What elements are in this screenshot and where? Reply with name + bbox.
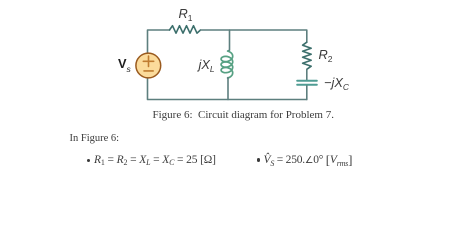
inductor jXL coil	[221, 51, 233, 78]
bullet 1 dot	[87, 159, 90, 162]
wire middle branch top	[228, 30, 229, 51]
bullet 2 dot	[257, 158, 260, 161]
voltage source Vs circle	[136, 53, 161, 78]
wire capacitor to bottom	[306, 86, 308, 100]
wire top-right segment	[201, 30, 307, 42]
capacitor -jXC	[297, 81, 317, 85]
bullet 1 text R1=R2=XL=XC	[94, 155, 216, 167]
label -jXC	[324, 77, 349, 90]
label Vs	[118, 58, 131, 71]
paragraph In Figure 6	[70, 134, 120, 145]
resistor R1	[170, 26, 201, 34]
voltage source minus sign	[144, 70, 153, 72]
wire R2 to capacitor	[306, 69, 308, 80]
wire top-left segment	[148, 30, 170, 54]
label R2	[319, 49, 333, 62]
bullet 2 text Vs=250 angle 0	[264, 153, 353, 167]
resistor R2	[303, 42, 312, 69]
label jXL	[199, 59, 215, 72]
wire bottom	[148, 79, 307, 100]
caption Figure 6	[153, 110, 334, 121]
label R1	[179, 8, 193, 21]
wire middle branch bottom	[227, 78, 229, 100]
voltage source plus sign	[143, 56, 153, 66]
